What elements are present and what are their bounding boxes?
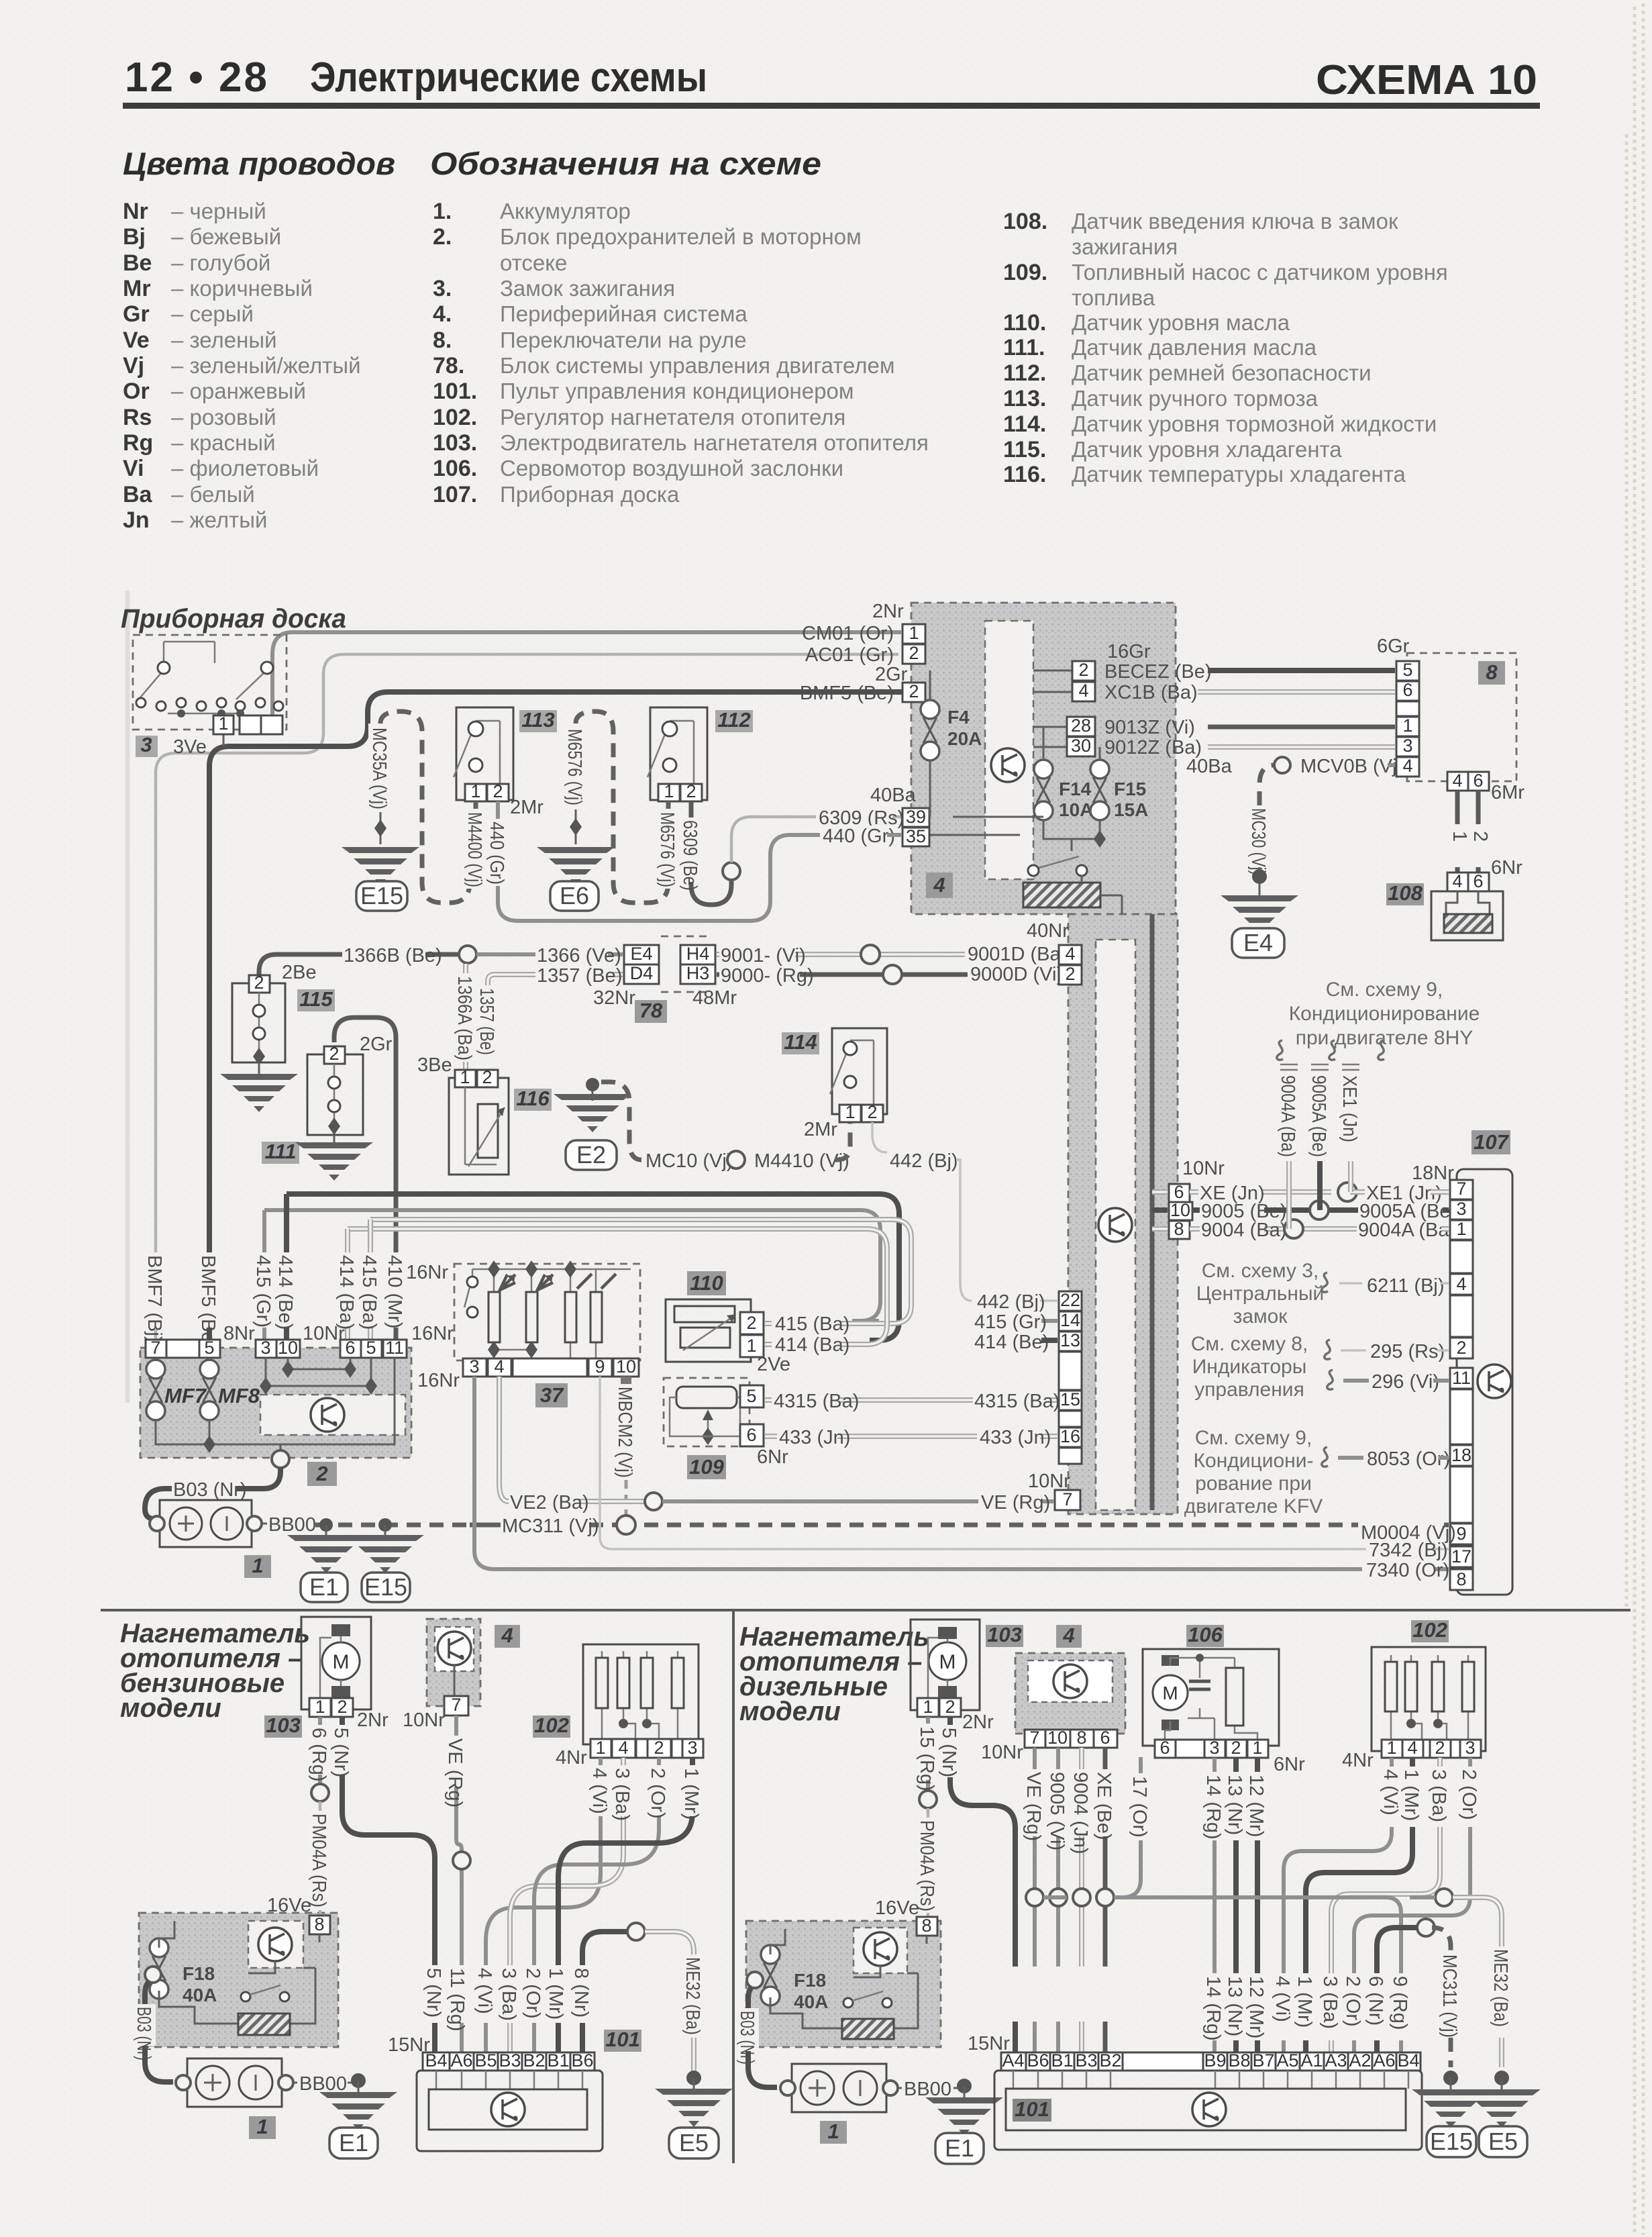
E2 box <box>566 1140 617 1170</box>
wire 1357 (Be) horizontal <box>488 975 623 985</box>
svg-text:B5: B5 <box>474 2050 497 2071</box>
svg-text:11 (Rg): 11 (Rg) <box>446 1968 468 2032</box>
component 103 blower motor (diesel) <box>911 1620 980 1717</box>
svg-text:Датчик температуры хладагента: Датчик температуры хладагента <box>1072 462 1406 487</box>
tag 4 (main) <box>926 873 953 898</box>
wire 9005 (Be) row <box>1192 1207 1358 1213</box>
svg-text:10: 10 <box>1170 1200 1190 1220</box>
svg-text:113: 113 <box>521 708 554 732</box>
svg-text:4: 4 <box>1452 871 1462 891</box>
svg-text:H3: H3 <box>686 963 710 983</box>
wire 14 (Rg) <box>1212 1758 1217 2052</box>
svg-text:BECEZ (Be): BECEZ (Be) <box>1104 661 1212 683</box>
svg-text:CM01 (Or): CM01 (Or) <box>802 623 894 644</box>
label 12 (Mr) lower <box>1245 1973 1268 2040</box>
svg-text:BMF5 (Be): BMF5 (Be) <box>800 683 894 704</box>
svg-text:Bj: Bj <box>123 224 146 250</box>
svg-text:1 (Mr): 1 (Mr) <box>1294 1976 1315 2028</box>
svg-text:B2: B2 <box>1099 2050 1121 2071</box>
label VE (Rg) vertical petrol <box>444 1736 467 1787</box>
svg-text:6Nr: 6Nr <box>757 1446 788 1468</box>
pin column 22/14/13/15/16/7 boxes <box>1059 1291 1082 1311</box>
svg-text:2Be: 2Be <box>282 962 317 983</box>
pin 2 (40Nr) <box>1059 965 1082 985</box>
label 6309 (Be) vertical <box>679 817 702 882</box>
svg-text:106.: 106. <box>433 456 477 481</box>
svg-text:39: 39 <box>906 807 926 827</box>
svg-text:2Gr: 2Gr <box>360 1034 393 1055</box>
svg-text:102.: 102. <box>433 405 477 430</box>
node ME32 <box>627 1923 645 1940</box>
svg-text:2 (Or): 2 (Or) <box>1458 1769 1480 1820</box>
pin 28 out <box>1067 717 1095 736</box>
svg-text:– бежевый: – бежевый <box>171 224 281 249</box>
svg-text:F14: F14 <box>1059 779 1092 799</box>
component 112 seat belt switch <box>648 707 707 801</box>
label 14 (Rg) vertical <box>1202 1772 1225 1840</box>
svg-text:– коричневый: – коричневый <box>171 276 313 301</box>
wire 2 (Or) diesel <box>1354 1758 1470 2052</box>
svg-text:4: 4 <box>1078 681 1088 701</box>
svg-text:8: 8 <box>1174 1219 1184 1239</box>
svg-text:См. схему 9,: См. схему 9, <box>1326 979 1443 1001</box>
svg-text:Датчик ремней безопасности: Датчик ремней безопасности <box>1072 360 1372 385</box>
svg-text:B1: B1 <box>547 2050 569 2071</box>
comp8 pin 4 <box>1396 757 1419 777</box>
svg-text:7: 7 <box>1062 1489 1072 1509</box>
svg-text:112: 112 <box>717 708 750 732</box>
svg-text:13 (Nr): 13 (Nr) <box>1224 1976 1245 2036</box>
wire 17 (Or) joins XE node <box>1114 1757 1141 1897</box>
svg-text:A5: A5 <box>1276 2050 1298 2071</box>
svg-text:5 (Nr): 5 (Nr) <box>423 1968 444 2018</box>
pin 1 (CM01) <box>902 624 925 644</box>
label 1 (Mr) vertical diesel <box>1400 1767 1423 1827</box>
svg-text:2Nr: 2Nr <box>357 1709 389 1731</box>
E4 box <box>1232 928 1284 958</box>
svg-text:110: 110 <box>690 1271 723 1295</box>
svg-text:30: 30 <box>1071 736 1091 756</box>
svg-text:3: 3 <box>469 1356 479 1377</box>
squiggle 296 <box>1327 1370 1333 1389</box>
wire 1366B (Be) <box>259 954 459 975</box>
wire 40Nr feed down harness column <box>1150 914 1155 1510</box>
svg-text:116: 116 <box>516 1087 550 1110</box>
ground stem MC30 <box>1259 867 1261 898</box>
svg-text:2: 2 <box>1435 1738 1445 1758</box>
label 1366A (Ba) vertical <box>454 973 476 1062</box>
svg-text:M6576 (Vj): M6576 (Vj) <box>564 729 585 805</box>
wire 9 (Rg) from VE node across <box>1043 1897 1401 2052</box>
svg-text:1: 1 <box>256 2115 268 2138</box>
svg-text:10: 10 <box>616 1356 636 1377</box>
fuse F4 20A <box>921 700 939 760</box>
label 9004 (Jn) vertical <box>1070 1769 1092 1836</box>
ground E5 (petrol) <box>655 2089 733 2127</box>
svg-text:A6: A6 <box>450 2050 472 2071</box>
svg-text:114: 114 <box>784 1030 817 1054</box>
label 3 (Ba) vertical diesel <box>1428 1767 1451 1827</box>
wire 1 (Mr) diesel <box>1306 1758 1412 2052</box>
svg-text:1.: 1. <box>433 199 452 224</box>
109 pin 5 <box>740 1385 764 1407</box>
ground E1 (diesel) <box>925 2097 1003 2136</box>
svg-text:12 (Mr): 12 (Mr) <box>1245 1775 1267 1837</box>
svg-text:– серый: – серый <box>171 301 254 326</box>
svg-text:2Mr: 2Mr <box>804 1119 837 1140</box>
svg-text:1: 1 <box>315 1697 325 1717</box>
label 4 (Vi) vertical <box>588 1765 611 1816</box>
svg-text:414 (Ba): 414 (Ba) <box>335 1255 357 1330</box>
svg-text:1: 1 <box>746 1336 756 1356</box>
svg-text:Or: Or <box>123 379 150 404</box>
tag 1 (main) <box>244 1555 271 1578</box>
svg-text:9000D (Vi): 9000D (Vi) <box>970 964 1063 985</box>
svg-text:103: 103 <box>987 1623 1022 1646</box>
svg-text:Mr: Mr <box>123 276 151 301</box>
svg-text:12 (Mr): 12 (Mr) <box>1245 1976 1267 2038</box>
svg-text:4315 (Ba): 4315 (Ba) <box>974 1391 1060 1412</box>
wire M4400 (Vj) from pin1 113 <box>474 801 478 809</box>
svg-text:17: 17 <box>1451 1546 1472 1567</box>
component 115 coolant level sensor <box>232 973 285 1065</box>
wire VE (Rg) petrol <box>456 1716 462 2052</box>
wire 414 (Be) vertical <box>284 1194 289 1341</box>
svg-text:2: 2 <box>337 1697 347 1717</box>
wire MC35A ground loop (dashed) <box>380 711 470 903</box>
pin D4 <box>624 964 659 984</box>
svg-text:3 (Ba): 3 (Ba) <box>1319 1976 1341 2029</box>
squiggles 8HY <box>1277 1040 1283 1060</box>
svg-text:A4: A4 <box>1002 2050 1024 2071</box>
tag 103 (petrol) <box>264 1716 302 1738</box>
svg-text:См. схему 8,: См. схему 8, <box>1191 1333 1308 1355</box>
svg-text:MC311 (Vj): MC311 (Vj) <box>1439 1954 1460 2038</box>
label MC35A (Vj) vertical <box>368 724 391 811</box>
node MC311 <box>617 1515 635 1534</box>
svg-text:– розовый: – розовый <box>171 405 276 430</box>
svg-text:Датчик уровня хладагента: Датчик уровня хладагента <box>1072 437 1342 462</box>
svg-text:Датчик ручного тормоза: Датчик ручного тормоза <box>1072 386 1319 411</box>
svg-text:2Nr: 2Nr <box>872 601 904 622</box>
svg-text:XE (Be): XE (Be) <box>1093 1772 1115 1840</box>
wire 12 (Mr) <box>1255 1758 1260 2052</box>
svg-text:XC1B (Ba): XC1B (Ba) <box>1104 682 1198 703</box>
comp2 pin 5b <box>361 1340 382 1358</box>
label 2 (Or) vertical <box>647 1765 670 1816</box>
ground stems E15 E5 diesel <box>1443 2071 1458 2085</box>
tag 8 <box>1478 661 1505 685</box>
svg-text:111: 111 <box>264 1140 296 1163</box>
pin 2 (AC01) <box>902 644 925 664</box>
svg-text:35: 35 <box>906 826 926 846</box>
svg-text:37: 37 <box>540 1383 564 1407</box>
svg-text:3: 3 <box>140 733 152 756</box>
svg-text:E5: E5 <box>679 2129 709 2156</box>
svg-text:2: 2 <box>482 1067 492 1087</box>
transistor harness <box>1098 1208 1132 1242</box>
wire BB00 <box>262 1523 267 1525</box>
svg-text:13 (Nr): 13 (Nr) <box>1224 1775 1245 1835</box>
svg-text:3: 3 <box>260 1338 270 1358</box>
svg-text:5: 5 <box>746 1386 756 1406</box>
svg-text:295 (Rs): 295 (Rs) <box>1370 1341 1445 1362</box>
wire 2Gr from 111 to pin 11 run <box>334 1017 396 1341</box>
svg-text:B03 (Nr): B03 (Nr) <box>133 2007 154 2060</box>
wire 8053 stub <box>1338 1456 1449 1460</box>
svg-text:Датчик уровня тормозной жидкос: Датчик уровня тормозной жидкости <box>1072 411 1437 436</box>
wire 415 (Gr) vertical <box>262 1210 266 1341</box>
wire 6309 (Rs) to pin 39 <box>731 817 901 862</box>
node 9004A <box>1284 1220 1303 1238</box>
svg-text:2: 2 <box>1065 964 1075 984</box>
svg-text:16: 16 <box>1060 1426 1080 1446</box>
label 3 (Ba) vertical <box>611 1765 634 1816</box>
pin 30 out <box>1067 737 1095 756</box>
svg-text:114.: 114. <box>1003 411 1046 437</box>
svg-text:2 (Or): 2 (Or) <box>522 1968 544 2019</box>
svg-text:2: 2 <box>686 781 696 801</box>
wire 9012Z to comp8 pin3 <box>1208 744 1395 750</box>
svg-text:18Nr: 18Nr <box>1412 1162 1454 1184</box>
comp2 pin blank <box>166 1340 199 1358</box>
svg-text:6Nr: 6Nr <box>1274 1754 1305 1775</box>
svg-text:MC10 (Vj): MC10 (Vj) <box>646 1150 733 1172</box>
svg-text:Обозначения на схеме: Обозначения на схеме <box>430 146 821 181</box>
svg-text:AC01 (Gr): AC01 (Gr) <box>805 644 894 666</box>
label 9 (Rg) vertical <box>1389 1973 1412 2040</box>
node PM04A diesel <box>919 1791 937 1808</box>
svg-text:F18: F18 <box>794 1970 826 1991</box>
svg-text:16Nr: 16Nr <box>417 1370 460 1391</box>
svg-text:M4400 (Vj): M4400 (Vj) <box>464 812 485 887</box>
comp37 pin 3 <box>463 1358 486 1377</box>
svg-text:3Be: 3Be <box>417 1054 452 1076</box>
wire BB00 dashed to MC311 <box>315 1523 631 1528</box>
labels 1 2 rotated <box>1447 824 1488 867</box>
svg-text:16Gr: 16Gr <box>1107 641 1151 662</box>
wire F4 feed <box>930 670 953 835</box>
svg-text:8 (Nr): 8 (Nr) <box>570 1968 592 2018</box>
svg-text:78: 78 <box>639 999 663 1022</box>
svg-text:E4: E4 <box>1243 929 1273 956</box>
svg-text:B7: B7 <box>1252 2050 1274 2071</box>
wire 415 (Gr) long run <box>264 1210 1057 1321</box>
label BB00 (petrol) <box>293 2082 297 2084</box>
svg-text:MC311 (Vj): MC311 (Vj) <box>502 1515 599 1537</box>
wire B03 (Nr) bottom left <box>145 1982 173 2082</box>
transistor 107 <box>1478 1364 1511 1398</box>
ground E4 <box>1221 895 1298 934</box>
component 4 peripheral (petrol small) <box>427 1619 480 1706</box>
svg-text:1: 1 <box>218 713 228 734</box>
tag 115 <box>297 989 335 1011</box>
comp2 pin 11 <box>383 1340 407 1358</box>
comp2 pin 6 <box>340 1340 361 1358</box>
svg-text:См. схему 9,: См. схему 9, <box>1195 1427 1312 1449</box>
wire 440 to pin 35 <box>887 833 901 837</box>
109 pin 6 <box>740 1424 764 1446</box>
comp8 pin 3 <box>1396 737 1419 756</box>
svg-text:2 (Or): 2 (Or) <box>647 1768 668 1819</box>
wire MC10 (Vj) dashed <box>601 1082 641 1160</box>
squiggle 6211 <box>1322 1273 1328 1292</box>
svg-text:6211 (Bj): 6211 (Bj) <box>1367 1275 1445 1297</box>
label PM04A (Rs) vertical diesel <box>916 1818 939 1913</box>
svg-text:102: 102 <box>1412 1618 1447 1642</box>
node 9001 <box>861 945 880 964</box>
comp2 pin 10 <box>276 1340 300 1358</box>
component 4 peripheral (diesel) <box>1015 1653 1125 1734</box>
svg-text:Цвета проводов: Цвета проводов <box>123 146 395 181</box>
svg-text:7: 7 <box>1029 1728 1039 1748</box>
svg-text:4 (Vi): 4 (Vi) <box>1272 1976 1293 2022</box>
svg-text:414 (Ba): 414 (Ba) <box>775 1334 849 1356</box>
svg-text:B03 (Nr): B03 (Nr) <box>736 2011 758 2065</box>
svg-text:1: 1 <box>845 1102 855 1122</box>
svg-text:111.: 111. <box>1003 335 1045 360</box>
svg-text:440 (Gr): 440 (Gr) <box>823 826 895 847</box>
svg-text:VE (Rg): VE (Rg) <box>981 1492 1050 1513</box>
label MC30 (Vj) vertical <box>1247 805 1270 867</box>
svg-text:1: 1 <box>1449 831 1470 842</box>
svg-text:B9: B9 <box>1204 2050 1226 2071</box>
svg-text:3: 3 <box>1402 736 1412 756</box>
wire 7340 (Or) <box>474 1377 1449 1569</box>
svg-text:9: 9 <box>1456 1524 1466 1544</box>
component 2 relay box shaded (bottom right) <box>746 1921 941 2047</box>
svg-text:BB00: BB00 <box>299 2073 347 2095</box>
svg-text:113.: 113. <box>1003 386 1046 411</box>
svg-text:2: 2 <box>1469 831 1491 842</box>
svg-text:9004A (Ba): 9004A (Ba) <box>1358 1220 1455 1241</box>
svg-text:110.: 110. <box>1003 310 1046 336</box>
ground below 115 <box>258 1062 260 1074</box>
tag 108 <box>1386 883 1424 905</box>
svg-text:2: 2 <box>909 643 919 663</box>
svg-text:40A: 40A <box>183 1985 217 2005</box>
svg-text:4: 4 <box>494 1356 504 1377</box>
svg-text:2: 2 <box>254 973 264 993</box>
svg-text:– желтый: – желтый <box>171 507 267 532</box>
svg-text:14: 14 <box>1060 1310 1080 1330</box>
svg-text:8Nr: 8Nr <box>223 1323 255 1344</box>
svg-text:E2: E2 <box>576 1141 606 1169</box>
svg-text:442 (Bj): 442 (Bj) <box>890 1150 958 1172</box>
tag 2 (main) <box>307 1462 337 1486</box>
ground E2 stem <box>592 1082 594 1101</box>
svg-text:1: 1 <box>1386 1738 1396 1758</box>
tag 111 <box>262 1142 299 1164</box>
svg-text:2.: 2. <box>433 224 452 250</box>
svg-text:Датчик введения ключа в замок: Датчик введения ключа в замок <box>1072 209 1398 234</box>
wire MC311 (Vj) diesel <box>1432 1928 1451 2067</box>
tag 4 (diesel) <box>1056 1625 1082 1648</box>
ground E2 <box>554 1094 631 1132</box>
squiggle 295 <box>1325 1340 1331 1359</box>
svg-text:40Nr: 40Nr <box>1027 920 1069 942</box>
label 13 (Nr) lower <box>1224 1973 1247 2040</box>
component 1 battery (diesel) <box>780 2064 898 2112</box>
wire 6309 (Be) from pin2 112 <box>691 801 731 905</box>
wire 9004A to pin1 <box>1441 1226 1449 1232</box>
svg-text:при двигателе 8HY: при двигателе 8HY <box>1296 1027 1474 1049</box>
pin 7 (VE) <box>1055 1490 1080 1510</box>
scan artifact right edge <box>1627 3 1643 2235</box>
svg-text:3: 3 <box>1456 1199 1466 1219</box>
svg-text:9: 9 <box>595 1356 605 1377</box>
ground stem E1 diesel <box>957 2079 972 2093</box>
component 102 blower regulator (diesel) <box>1372 1647 1486 1751</box>
fuse F15 15A <box>1090 760 1109 820</box>
legend colour list <box>123 199 361 533</box>
component 4 engine-bay interface shaded block <box>911 603 1176 914</box>
102 pins 1 4 2 3 <box>590 1739 611 1758</box>
tag 106 <box>1186 1625 1224 1647</box>
svg-text:Электродвигатель нагнетателя о: Электродвигатель нагнетателя отопителя <box>500 430 929 455</box>
svg-text:112.: 112. <box>1003 360 1046 386</box>
pin 10 (9005) <box>1169 1202 1192 1220</box>
svg-text:4: 4 <box>1062 1624 1074 1647</box>
label B03 (Nr) vertical diesel <box>736 2008 759 2051</box>
svg-text:14 (Rg): 14 (Rg) <box>1202 1976 1224 2041</box>
svg-text:BMF5 (Be): BMF5 (Be) <box>197 1255 219 1349</box>
svg-text:115: 115 <box>299 987 333 1011</box>
component 101 control panel (diesel) <box>994 2071 1422 2150</box>
component 8 steering column switches dashed box <box>1407 653 1516 781</box>
svg-text:M: M <box>1162 1683 1178 1703</box>
svg-text:3: 3 <box>687 1738 697 1758</box>
svg-text:11: 11 <box>385 1338 404 1358</box>
ground stem below MC35A <box>380 812 382 844</box>
svg-text:VE (Rg): VE (Rg) <box>1023 1772 1044 1841</box>
node 9005 diesel <box>1049 1889 1067 1906</box>
svg-text:108: 108 <box>1388 881 1423 905</box>
svg-text:3.: 3. <box>433 276 452 301</box>
wire B03 (Nr) bottom right <box>748 1987 777 2087</box>
transistor (comp2) <box>311 1398 344 1432</box>
svg-text:F18: F18 <box>183 1963 215 1984</box>
pin 7 (10Nr) <box>444 1696 468 1716</box>
tag 37 <box>535 1383 568 1407</box>
svg-text:9004 (Ba): 9004 (Ba) <box>1201 1220 1286 1241</box>
node 9004 diesel <box>1073 1889 1090 1906</box>
ground stem E5 petrol <box>686 2071 701 2085</box>
wire MBCM2 (Vj) dashed <box>625 1377 628 1517</box>
svg-text:2: 2 <box>909 681 919 701</box>
wire VE (Rg) diesel <box>1033 1748 1037 2052</box>
label 13 (Nr) vertical <box>1224 1772 1247 1840</box>
wire MCV0B label to pin4 <box>1388 763 1395 767</box>
vertical wire labels <box>144 1252 168 1328</box>
svg-text:109: 109 <box>689 1455 724 1479</box>
pin H4 <box>680 945 715 964</box>
svg-text:415 (Ba): 415 (Ba) <box>775 1313 849 1335</box>
svg-text:B03 (Nr): B03 (Nr) <box>173 1479 247 1501</box>
svg-text:28: 28 <box>1071 715 1091 736</box>
wire 6211 stub <box>1339 1282 1449 1285</box>
svg-text:9001D (Ba): 9001D (Ba) <box>968 944 1067 965</box>
wire M4410 to 114 pin1 <box>835 1122 850 1160</box>
connector 101 petrol pin row <box>423 2052 450 2071</box>
svg-text:E1: E1 <box>339 2129 368 2156</box>
legend designation list column 1 <box>433 199 929 507</box>
svg-text:1: 1 <box>909 623 919 643</box>
tag 78 <box>635 1000 667 1023</box>
wire 3 (Ba) petrol <box>510 1758 623 2052</box>
ground E5 (diesel) <box>1463 2089 1541 2128</box>
label 6 (Rg) vertical <box>308 1725 331 1775</box>
